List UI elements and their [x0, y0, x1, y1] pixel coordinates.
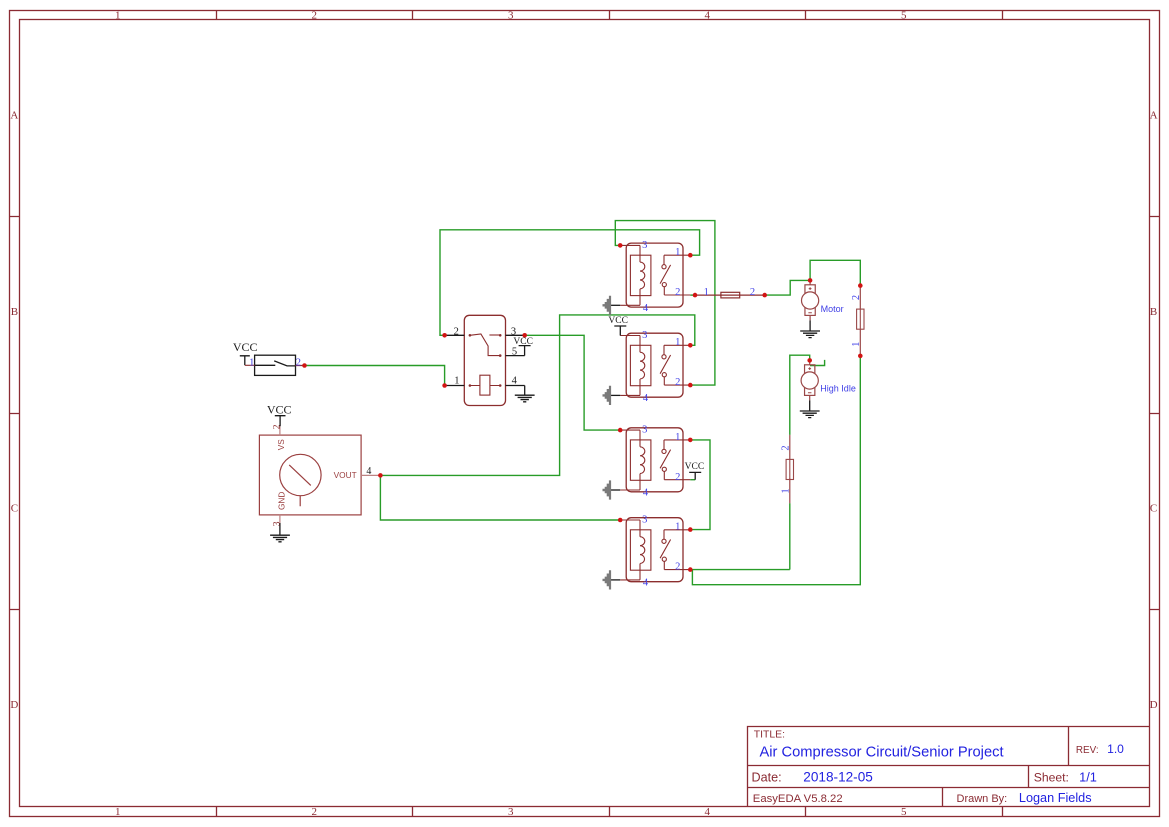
svg-text:2: 2: [454, 327, 459, 338]
svg-text:2018-12-05: 2018-12-05: [803, 770, 873, 785]
svg-text:3: 3: [511, 327, 516, 338]
svg-text:VOUT: VOUT: [334, 470, 357, 480]
svg-text:REV:: REV:: [1076, 745, 1099, 756]
svg-text:1: 1: [115, 806, 121, 818]
svg-text:EasyEDA V5.8.22: EasyEDA V5.8.22: [753, 793, 843, 805]
svg-text:A: A: [10, 109, 18, 121]
svg-text:2: 2: [780, 445, 791, 450]
svg-text:1.0: 1.0: [1107, 742, 1124, 756]
svg-text:Date:: Date:: [752, 771, 782, 785]
svg-text:2: 2: [312, 9, 318, 21]
svg-text:VCC: VCC: [267, 402, 292, 416]
svg-text:TITLE:: TITLE:: [754, 730, 785, 741]
svg-text:B: B: [11, 306, 18, 318]
svg-text:VCC: VCC: [685, 462, 705, 472]
svg-text:Motor: Motor: [821, 304, 844, 314]
svg-text:B: B: [1150, 306, 1157, 318]
svg-text:4: 4: [512, 376, 518, 387]
svg-text:4: 4: [366, 466, 371, 477]
svg-text:1/1: 1/1: [1079, 770, 1097, 785]
svg-text:VCC: VCC: [513, 337, 533, 347]
svg-text:2: 2: [750, 287, 755, 298]
svg-text:Logan Fields: Logan Fields: [1019, 791, 1092, 805]
svg-text:Air Compressor Circuit/Senior: Air Compressor Circuit/Senior Project: [760, 745, 1004, 761]
svg-text:Sheet:: Sheet:: [1034, 771, 1069, 785]
svg-text:2: 2: [312, 806, 318, 818]
svg-text:VCC: VCC: [608, 316, 628, 326]
svg-text:VCC: VCC: [233, 340, 258, 354]
svg-text:1: 1: [704, 287, 709, 298]
svg-text:1: 1: [454, 376, 459, 387]
svg-text:3: 3: [508, 806, 514, 818]
svg-text:5: 5: [901, 806, 907, 818]
svg-text:D: D: [10, 699, 18, 711]
svg-text:VS: VS: [276, 439, 286, 451]
svg-text:3: 3: [272, 521, 282, 526]
svg-text:4: 4: [705, 9, 711, 21]
svg-text:C: C: [11, 503, 18, 515]
svg-text:C: C: [1150, 503, 1157, 515]
svg-text:2: 2: [851, 295, 862, 300]
svg-text:2: 2: [296, 357, 301, 368]
svg-text:1: 1: [249, 357, 254, 368]
svg-text:5: 5: [512, 347, 517, 358]
svg-text:4: 4: [705, 806, 711, 818]
svg-text:High Idle: High Idle: [820, 384, 856, 394]
svg-text:5: 5: [901, 9, 907, 21]
svg-text:A: A: [1150, 109, 1158, 121]
svg-text:1: 1: [851, 342, 862, 347]
svg-text:2: 2: [272, 424, 282, 429]
svg-text:1: 1: [115, 9, 121, 21]
svg-text:Drawn By:: Drawn By:: [957, 793, 1008, 805]
svg-text:3: 3: [508, 9, 514, 21]
svg-text:1: 1: [780, 488, 791, 493]
svg-text:GND: GND: [276, 492, 286, 510]
svg-text:D: D: [1150, 699, 1158, 711]
